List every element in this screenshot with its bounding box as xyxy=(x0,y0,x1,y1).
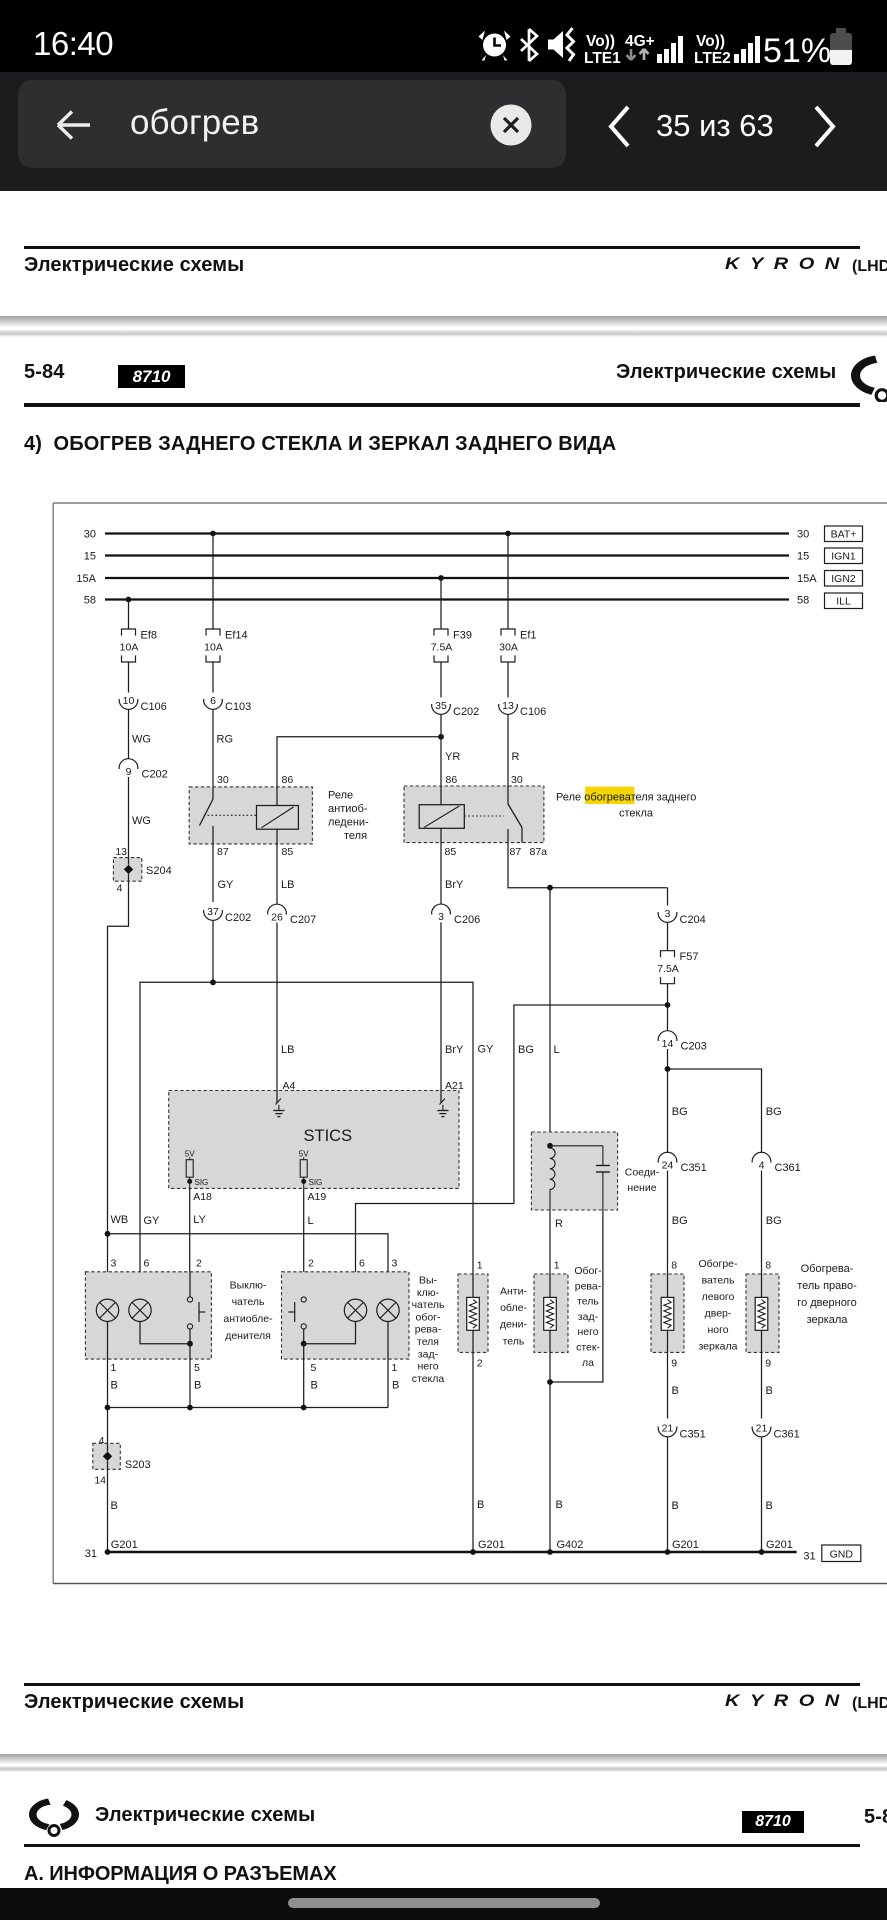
label Обогреватель правого дверного зеркала xyxy=(797,1263,857,1326)
wire B S2 pin 1 xyxy=(388,1322,399,1408)
wire bus58 to fuse Ef8 xyxy=(128,600,130,630)
svg-text:85: 85 xyxy=(282,846,294,858)
svg-text:5: 5 xyxy=(194,1362,200,1374)
svg-text:1: 1 xyxy=(477,1260,483,1272)
svg-text:S204: S204 xyxy=(146,865,172,877)
svg-text:B: B xyxy=(111,1380,118,1392)
connector pin 26 C207 xyxy=(268,904,317,926)
svg-text:G201: G201 xyxy=(111,1539,138,1551)
svg-text:15A: 15A xyxy=(797,573,817,585)
svg-text:RG: RG xyxy=(217,734,234,746)
svg-text:2: 2 xyxy=(308,1258,314,1270)
junction bus 58 / Ef8 column xyxy=(126,597,132,603)
svg-text:WB: WB xyxy=(111,1214,129,1226)
lamp S2-L1 xyxy=(344,1299,366,1321)
ground bus 31 xyxy=(85,1548,816,1563)
svg-text:B: B xyxy=(311,1380,318,1392)
fuse F39 7.5A xyxy=(431,629,472,662)
net label box GND xyxy=(822,1545,861,1562)
svg-text:15A: 15A xyxy=(76,573,96,585)
svg-text:IGN1: IGN1 xyxy=(831,551,856,563)
connector pin 6 C103 xyxy=(204,695,252,713)
connector pin 4 C361 xyxy=(752,1152,801,1174)
junction L branch xyxy=(547,885,553,891)
svg-text:10A: 10A xyxy=(204,642,223,654)
junction bus 15A / F39 column xyxy=(438,575,444,581)
svg-text:1: 1 xyxy=(111,1362,117,1374)
connector pin 14 C203 xyxy=(658,1031,707,1053)
svg-text:3: 3 xyxy=(665,908,671,920)
relay K2 (Реле обогревателя заднего стекла) xyxy=(404,774,547,858)
svg-text:теля: теля xyxy=(417,1336,439,1348)
svg-text:IGN2: IGN2 xyxy=(831,573,856,585)
svg-text:2: 2 xyxy=(477,1358,483,1370)
svg-text:GND: GND xyxy=(830,1548,854,1560)
svg-text:B: B xyxy=(672,1500,679,1512)
wire B S1 pin 1 xyxy=(108,1322,118,1408)
label relay K2 Реле обогревателя заднего стекла xyxy=(556,792,696,820)
svg-text:R: R xyxy=(512,751,520,763)
junction WB branch xyxy=(105,1231,111,1237)
connector pin 37 C202 xyxy=(204,906,252,924)
svg-text:левого: левого xyxy=(702,1291,735,1303)
search highlight on обогрев xyxy=(585,787,634,805)
connector pin 13 C106 xyxy=(499,700,547,718)
wire GY C202 to GY node xyxy=(212,920,214,982)
svg-text:13: 13 xyxy=(502,700,514,712)
wire to splice S203 xyxy=(99,1408,108,1448)
svg-text:зад-: зад- xyxy=(578,1311,599,1323)
bus line 15A (IGN2) xyxy=(76,573,817,585)
svg-text:LB: LB xyxy=(281,879,294,891)
junction mirror branch xyxy=(665,1066,671,1072)
svg-text:него: него xyxy=(417,1361,438,1373)
STICS internal ground at A21 xyxy=(437,1091,448,1117)
wire YR C202 to relay K2 pin 86 xyxy=(441,715,460,787)
svg-text:BG: BG xyxy=(672,1215,688,1227)
svg-text:C103: C103 xyxy=(225,701,251,713)
svg-text:BrY: BrY xyxy=(445,879,464,891)
bus line 15 (IGN1) xyxy=(84,551,810,563)
svg-text:6: 6 xyxy=(210,695,216,707)
junction S1 pin 5 xyxy=(140,1322,193,1347)
svg-text:Ef1: Ef1 xyxy=(520,630,537,642)
svg-text:GY: GY xyxy=(478,1044,495,1056)
wire capacitor return xyxy=(550,1210,603,1382)
svg-text:Обог-: Обог- xyxy=(574,1265,602,1277)
svg-text:85: 85 xyxy=(445,846,457,858)
wire WB to switch 1 pin 3 xyxy=(107,1234,109,1299)
svg-text:денителя: денителя xyxy=(225,1330,271,1342)
wire B C361 to ground G201 xyxy=(762,1437,793,1552)
wire BG branch to switch 2 pin 6 xyxy=(356,1005,668,1299)
svg-text:31: 31 xyxy=(85,1548,97,1560)
svg-text:B: B xyxy=(672,1385,679,1397)
svg-text:двер-: двер- xyxy=(705,1308,732,1320)
svg-text:Реле: Реле xyxy=(328,790,353,802)
svg-text:SIG: SIG xyxy=(195,1178,209,1187)
svg-text:L: L xyxy=(554,1044,560,1056)
svg-text:C207: C207 xyxy=(290,914,316,926)
connector pin 24 C351 xyxy=(658,1152,707,1174)
svg-text:L: L xyxy=(308,1215,314,1227)
svg-text:LB: LB xyxy=(281,1044,294,1056)
svg-text:F57: F57 xyxy=(680,951,699,963)
fuse F57 7.5A xyxy=(657,951,698,984)
wire C204 to fuse F57 xyxy=(667,922,669,950)
svg-text:ILL: ILL xyxy=(836,596,851,608)
svg-text:C204: C204 xyxy=(680,914,706,926)
svg-text:Выклю-: Выклю- xyxy=(230,1279,267,1291)
net label box ILL xyxy=(825,593,863,609)
svg-text:теля: теля xyxy=(344,830,367,842)
svg-text:B: B xyxy=(766,1385,773,1397)
wire relay K2 pin 87 output xyxy=(508,843,668,888)
svg-text:3: 3 xyxy=(111,1258,117,1270)
svg-text:стекла: стекла xyxy=(619,808,654,820)
wire LB relay K1 pin 85 to C207 xyxy=(277,844,294,905)
svg-text:Реле обогревателя заднего: Реле обогревателя заднего xyxy=(556,792,696,804)
svg-text:зеркала: зеркала xyxy=(807,1314,849,1326)
svg-text:B: B xyxy=(556,1499,563,1511)
svg-text:14: 14 xyxy=(94,1475,106,1487)
svg-text:87a: 87a xyxy=(530,846,548,858)
svg-text:B: B xyxy=(766,1500,773,1512)
connector pin 10 C106 xyxy=(119,695,167,713)
wire GY relay K1 pin 87 to C202 xyxy=(213,844,234,902)
svg-text:15: 15 xyxy=(84,551,96,563)
connector pin 21 C351 xyxy=(658,1423,706,1441)
label Соединение xyxy=(625,1167,660,1195)
push contact S2 pin 2 xyxy=(288,1297,306,1344)
schematic frame border xyxy=(53,503,887,1584)
wire relay K1 pin 86 link to YR node xyxy=(277,737,441,787)
svg-text:30: 30 xyxy=(511,774,523,786)
svg-text:7.5A: 7.5A xyxy=(431,642,453,654)
connector pin 21 C361 xyxy=(752,1423,800,1441)
svg-text:SIG: SIG xyxy=(309,1178,323,1187)
net label box IGN2 xyxy=(825,571,863,587)
junction ground dots xyxy=(105,1549,765,1555)
wire B S203 to ground G201 xyxy=(108,1469,138,1552)
svg-text:чатель: чатель xyxy=(412,1299,445,1311)
svg-text:WG: WG xyxy=(132,734,151,746)
wire fuse F39 to connector C202 xyxy=(440,662,442,698)
svg-text:37: 37 xyxy=(207,906,219,918)
heater element Антиобледенитель xyxy=(458,1260,488,1370)
wire to connector C204 xyxy=(667,888,669,906)
svg-text:21: 21 xyxy=(756,1423,768,1435)
svg-text:Анти-: Анти- xyxy=(500,1286,527,1298)
svg-text:Обогрева-: Обогрева- xyxy=(801,1263,854,1275)
svg-text:3: 3 xyxy=(392,1258,398,1270)
svg-text:C351: C351 xyxy=(680,1429,706,1441)
label Обогреватель левого дверного зеркала xyxy=(698,1258,738,1353)
svg-text:C202: C202 xyxy=(142,769,168,781)
svg-text:BAT+: BAT+ xyxy=(831,529,857,541)
label relay K1 Реле антиобледенителя xyxy=(328,790,369,843)
svg-text:го дверного: го дверного xyxy=(797,1297,856,1309)
svg-text:B: B xyxy=(477,1499,484,1511)
svg-text:рева-: рева- xyxy=(575,1280,602,1292)
bus line 30 (BAT+) xyxy=(84,529,810,541)
page separator 2 xyxy=(0,1754,887,1764)
lamp S2-L2 xyxy=(377,1299,399,1321)
svg-text:C202: C202 xyxy=(453,706,479,718)
wire BG C361 to right mirror heater xyxy=(762,1171,782,1274)
wire bus30 to fuse Ef1 xyxy=(507,534,509,630)
wire LB C207 to STICS pin A4 xyxy=(277,923,296,1093)
wire B defroster to ground G201 xyxy=(473,1352,505,1552)
svg-text:1: 1 xyxy=(392,1362,398,1374)
svg-text:Ef14: Ef14 xyxy=(225,630,248,642)
svg-text:4: 4 xyxy=(759,1159,765,1171)
svg-text:58: 58 xyxy=(84,595,96,607)
svg-text:A19: A19 xyxy=(308,1191,327,1203)
svg-text:1: 1 xyxy=(554,1260,560,1272)
svg-text:чатель: чатель xyxy=(232,1296,265,1308)
svg-text:BG: BG xyxy=(766,1215,782,1227)
wire fuse F57 to BG node xyxy=(667,984,669,1031)
wire B C351 to ground G201 xyxy=(668,1437,699,1552)
svg-text:GY: GY xyxy=(218,879,235,891)
svg-text:C203: C203 xyxy=(681,1041,707,1053)
svg-text:дени-: дени- xyxy=(500,1319,528,1331)
junction S2 pin 5 xyxy=(301,1322,356,1347)
svg-text:нение: нение xyxy=(627,1182,656,1194)
wire fuse Ef8 to connector C106 xyxy=(128,662,130,693)
wire LY STICS A18 to switch 1 pin 2 xyxy=(190,1188,212,1297)
svg-text:тель право-: тель право- xyxy=(797,1280,857,1292)
connector pin 35 C202 xyxy=(432,700,480,718)
svg-text:F39: F39 xyxy=(453,630,472,642)
svg-text:10A: 10A xyxy=(120,642,139,654)
svg-text:C202: C202 xyxy=(225,912,251,924)
svg-text:9: 9 xyxy=(126,766,132,778)
svg-text:C106: C106 xyxy=(520,706,546,718)
connector pin 3 C204 xyxy=(658,908,706,926)
svg-text:13: 13 xyxy=(115,846,127,858)
svg-text:7.5A: 7.5A xyxy=(657,963,679,975)
wire R joint to rear glass heater xyxy=(550,1210,563,1274)
svg-text:зад-: зад- xyxy=(418,1348,439,1360)
wire WB branch to switch 2 pin 3 xyxy=(108,1234,389,1299)
fuse Ef14 10A xyxy=(204,629,247,662)
svg-text:86: 86 xyxy=(282,774,294,786)
svg-text:C206: C206 xyxy=(454,914,480,926)
svg-text:6: 6 xyxy=(359,1258,365,1270)
wire C203 down xyxy=(668,1049,688,1153)
svg-text:G201: G201 xyxy=(672,1539,699,1551)
svg-text:B: B xyxy=(392,1380,399,1392)
heater element Обогреватель правого дверного зеркала xyxy=(746,1260,779,1370)
svg-text:87: 87 xyxy=(217,846,229,858)
STICS 5V pull-up A19 xyxy=(299,1149,322,1188)
push contact S1 pin 2 xyxy=(187,1272,205,1344)
splice S203 xyxy=(93,1443,151,1486)
wire bus15A to fuse F39 xyxy=(440,578,442,629)
svg-text:R: R xyxy=(555,1218,563,1230)
label Антиобледенитель xyxy=(500,1286,528,1348)
wire B S1 pin 5 xyxy=(190,1344,201,1408)
module STICS xyxy=(169,1091,459,1189)
svg-text:24: 24 xyxy=(662,1159,674,1171)
net label box IGN1 xyxy=(825,548,863,564)
svg-text:30A: 30A xyxy=(499,642,518,654)
svg-text:G201: G201 xyxy=(766,1539,793,1551)
svg-text:5V: 5V xyxy=(185,1149,195,1158)
STICS 5V pull-up A18 xyxy=(185,1149,208,1188)
wire BG C351 to left mirror heater xyxy=(668,1171,688,1274)
lamp S1-L2 xyxy=(129,1299,151,1321)
svg-text:Соеди-: Соеди- xyxy=(625,1167,660,1179)
svg-text:30: 30 xyxy=(217,774,229,786)
svg-text:3: 3 xyxy=(438,911,444,923)
svg-text:тель: тель xyxy=(577,1296,599,1308)
lamp S1-L1 xyxy=(96,1299,118,1321)
svg-text:30: 30 xyxy=(84,529,96,541)
svg-text:86: 86 xyxy=(446,774,458,786)
wire BrY relay K2 pin 85 to C206 xyxy=(441,843,464,905)
svg-text:BG: BG xyxy=(518,1044,534,1056)
svg-text:5V: 5V xyxy=(299,1149,309,1158)
wire RG C103 to relay K1 pin 30 xyxy=(213,710,233,787)
relay K1 (Реле антиобледенителя) xyxy=(189,774,312,858)
svg-text:YR: YR xyxy=(445,751,460,763)
connector pin 9 C202 xyxy=(119,759,168,781)
wire branch to right mirror xyxy=(668,1069,782,1153)
splice S204 xyxy=(113,846,171,895)
svg-text:G201: G201 xyxy=(478,1539,505,1551)
wire ground link bus xyxy=(108,1407,389,1409)
svg-text:обле-: обле- xyxy=(500,1302,527,1314)
svg-text:Вы-: Вы- xyxy=(419,1275,438,1287)
junction BG node xyxy=(665,1002,671,1008)
svg-text:8: 8 xyxy=(671,1260,677,1272)
net label box BAT+ xyxy=(825,526,863,542)
svg-text:GY: GY xyxy=(144,1215,161,1227)
fuse Ef8 10A xyxy=(120,629,157,662)
svg-text:9: 9 xyxy=(765,1358,771,1370)
svg-text:стекла: стекла xyxy=(412,1373,445,1385)
svg-text:антиобле-: антиобле- xyxy=(223,1313,273,1325)
junction bus 30 / Ef14 column xyxy=(210,531,216,537)
svg-text:C361: C361 xyxy=(775,1162,801,1174)
svg-text:35: 35 xyxy=(435,700,447,712)
connector pin 3 C206 xyxy=(432,904,481,926)
svg-text:BG: BG xyxy=(672,1106,688,1118)
svg-text:S203: S203 xyxy=(125,1459,151,1471)
svg-text:58: 58 xyxy=(797,595,809,607)
svg-text:B: B xyxy=(111,1500,118,1512)
switch S1 (Выключатель антиобледенителя) xyxy=(85,1258,211,1375)
wire fuse Ef14 to connector C103 xyxy=(212,662,214,693)
svg-text:ла: ла xyxy=(582,1357,594,1369)
svg-text:антиоб-: антиоб- xyxy=(328,803,368,815)
svg-text:стек-: стек- xyxy=(576,1342,600,1354)
svg-text:A18: A18 xyxy=(193,1191,212,1203)
svg-text:26: 26 xyxy=(271,911,283,923)
svg-text:WG: WG xyxy=(132,815,151,827)
svg-text:G402: G402 xyxy=(557,1539,584,1551)
wire WG C202 to splice S204 xyxy=(129,777,151,858)
svg-text:Обогре-: Обогре- xyxy=(698,1258,738,1270)
switch S2 (Выключатель обогревателя заднего стекла) xyxy=(282,1258,410,1375)
svg-text:обог-: обог- xyxy=(415,1311,441,1323)
label switch S2 xyxy=(412,1275,445,1385)
heater element Обогреватель заднего стекла xyxy=(534,1260,568,1353)
heater element Обогреватель левого дверного зеркала xyxy=(651,1260,684,1370)
svg-text:30: 30 xyxy=(797,529,809,541)
wire bus30 to fuse Ef14 xyxy=(212,534,214,630)
svg-text:рева-: рева- xyxy=(415,1324,442,1336)
svg-text:B: B xyxy=(194,1380,201,1392)
wire left mirror heater to C351 xyxy=(668,1352,679,1418)
svg-text:него: него xyxy=(577,1326,598,1338)
wire GY node to switch 1 pin 6 and defroster xyxy=(140,982,494,1299)
wire L STICS A19 to switch 2 pin 2 xyxy=(304,1188,327,1297)
svg-text:зеркала: зеркала xyxy=(698,1341,737,1353)
svg-text:2: 2 xyxy=(196,1258,202,1270)
junction bus 30 / Ef1 column xyxy=(505,531,511,537)
svg-text:5: 5 xyxy=(311,1362,317,1374)
bus line 58 (ILL) xyxy=(84,595,810,607)
svg-text:C361: C361 xyxy=(774,1429,800,1441)
wire fuse Ef1 to connector C106 xyxy=(507,662,509,698)
STICS internal ground at A4 xyxy=(273,1091,284,1117)
junction capacitor return xyxy=(547,1379,553,1385)
wire right mirror heater to C361 xyxy=(762,1352,773,1418)
svg-text:LY: LY xyxy=(193,1214,206,1226)
svg-text:тель: тель xyxy=(503,1335,525,1347)
joint connector Соединение xyxy=(531,1132,617,1210)
wire R C106 to relay K2 pin 30 xyxy=(508,715,520,787)
junction YR node xyxy=(438,734,444,740)
svg-text:15: 15 xyxy=(797,551,809,563)
fuse Ef1 30A xyxy=(499,629,536,662)
wire WG C106 to C202 xyxy=(129,710,151,760)
svg-text:C351: C351 xyxy=(681,1162,707,1174)
junction GY node xyxy=(210,979,216,985)
svg-text:8: 8 xyxy=(765,1260,771,1272)
svg-text:31: 31 xyxy=(803,1551,815,1563)
page separator 1 xyxy=(0,316,887,327)
svg-text:4: 4 xyxy=(117,883,123,895)
wire WB S204 down with jog xyxy=(108,881,129,1234)
svg-text:87: 87 xyxy=(510,846,522,858)
svg-text:BG: BG xyxy=(766,1106,782,1118)
svg-text:ватель: ватель xyxy=(702,1275,735,1287)
svg-text:STICS: STICS xyxy=(304,1127,353,1145)
svg-text:10: 10 xyxy=(123,695,135,707)
svg-text:C106: C106 xyxy=(141,701,167,713)
svg-text:14: 14 xyxy=(662,1038,674,1050)
junction link dots xyxy=(105,1405,307,1411)
label Обогреватель заднего стекла xyxy=(574,1265,602,1369)
svg-text:21: 21 xyxy=(662,1423,674,1435)
svg-text:6: 6 xyxy=(144,1258,150,1270)
label switch S1 xyxy=(223,1279,273,1342)
svg-text:клю-: клю- xyxy=(417,1287,440,1299)
wire L to joint connector xyxy=(550,888,560,1146)
svg-text:9: 9 xyxy=(671,1358,677,1370)
svg-text:BrY: BrY xyxy=(445,1044,464,1056)
wire B rear glass heater to ground G402 xyxy=(550,1352,583,1552)
wire BrY C206 to STICS pin A21 xyxy=(441,922,464,1092)
svg-text:ледени-: ледени- xyxy=(328,817,369,829)
wire B S2 pin 5 xyxy=(304,1344,318,1408)
svg-text:ного: ного xyxy=(707,1324,728,1336)
